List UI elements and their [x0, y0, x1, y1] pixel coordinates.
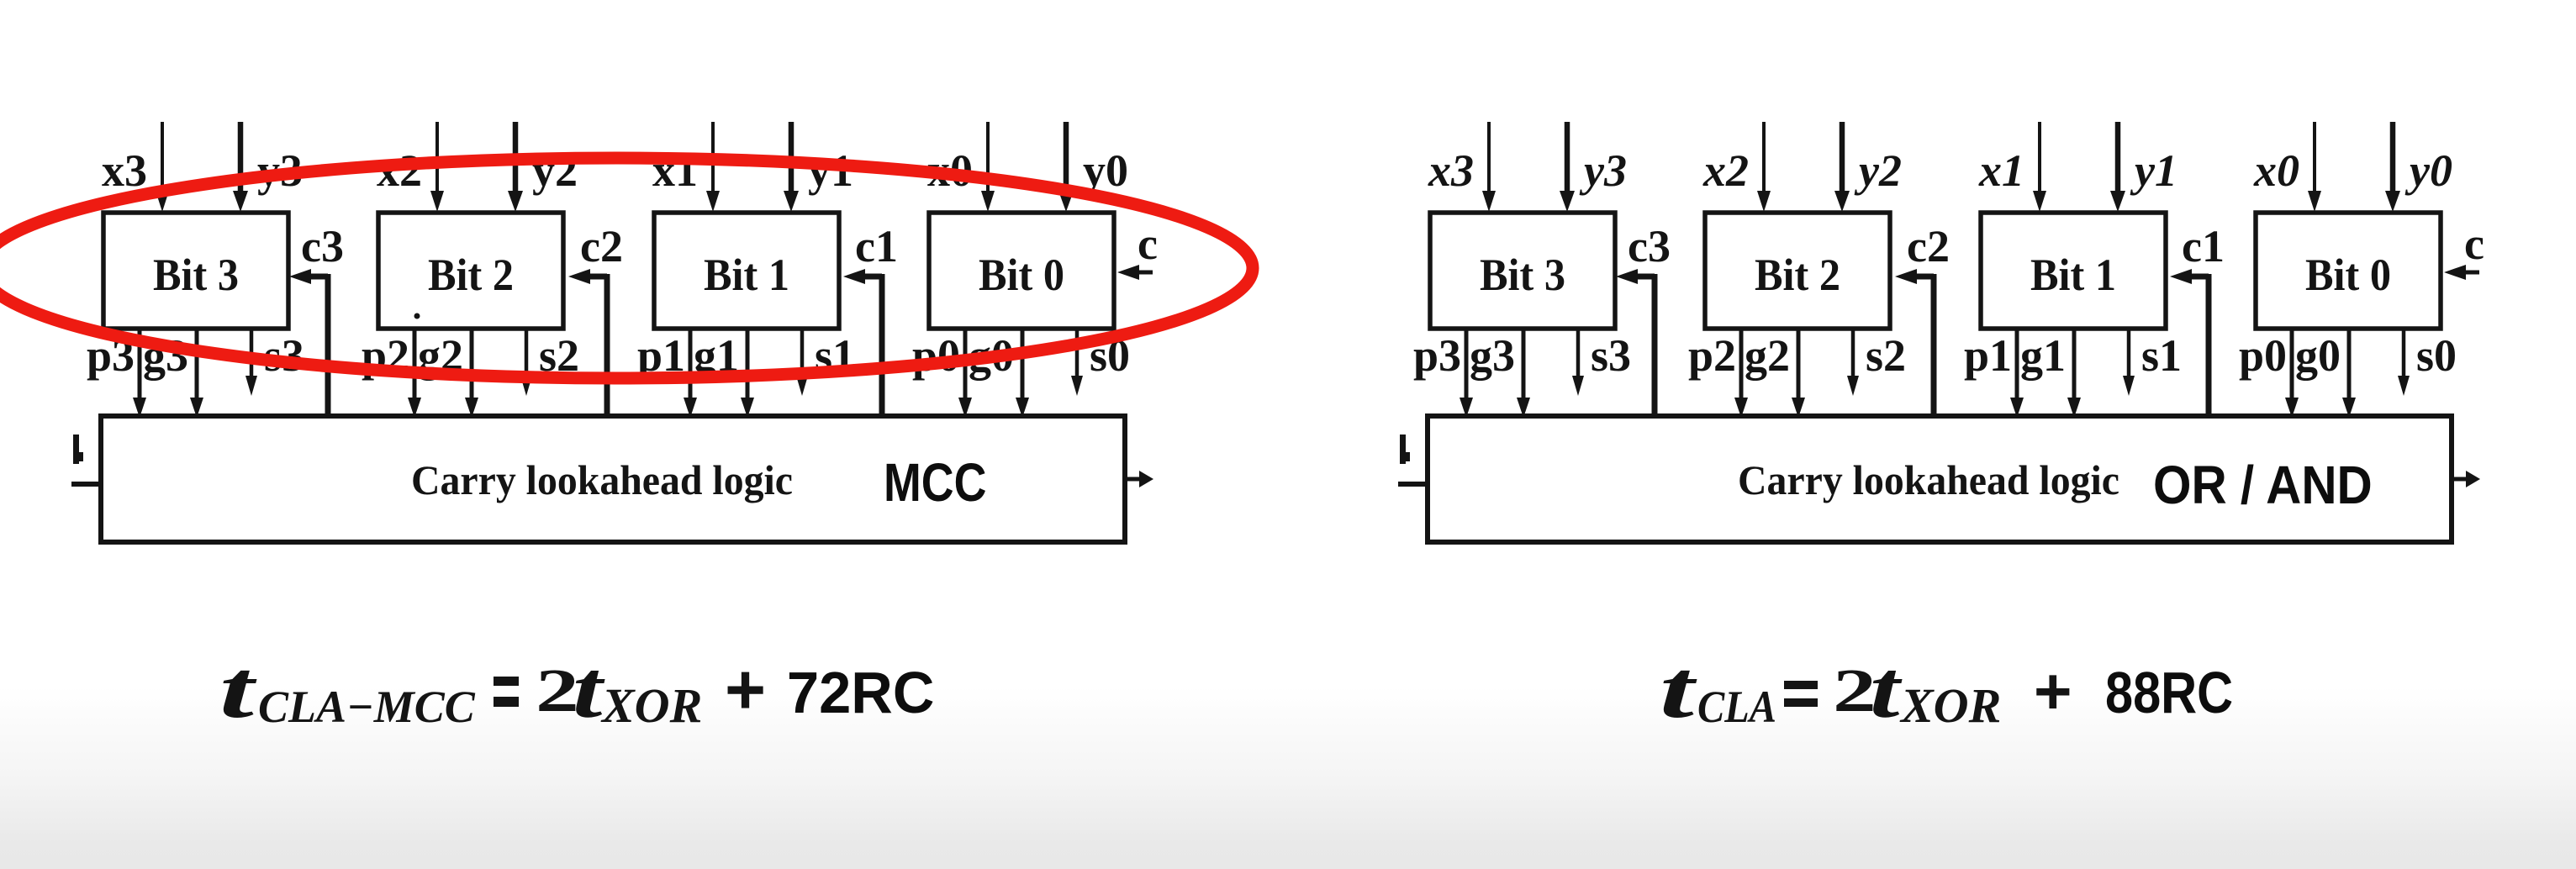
- svg-text:y0: y0: [2404, 145, 2452, 196]
- svg-text:x1: x1: [1978, 145, 2024, 196]
- svg-text:x2: x2: [1702, 145, 1749, 196]
- svg-text:OR / AND: OR / AND: [2153, 456, 2373, 515]
- svg-text:y1: y1: [2130, 145, 2177, 196]
- svg-text:88RC: 88RC: [2105, 659, 2233, 725]
- svg-text:t: t: [1870, 644, 1903, 735]
- svg-text:t: t: [573, 644, 605, 735]
- svg-text:+: +: [725, 650, 766, 729]
- svg-text:y2: y2: [1854, 145, 1902, 196]
- svg-text:y3: y3: [1579, 145, 1627, 196]
- svg-text:CLA−MCC: CLA−MCC: [258, 682, 476, 732]
- svg-text:72RC: 72RC: [787, 659, 934, 725]
- svg-text:x3: x3: [1428, 145, 1474, 196]
- svg-text:+: +: [2034, 654, 2072, 728]
- svg-text:t: t: [1660, 645, 1697, 735]
- svg-text:t: t: [219, 645, 257, 735]
- svg-text:x3: x3: [102, 145, 147, 196]
- svg-text:CLA: CLA: [1697, 682, 1776, 732]
- svg-text:x0: x0: [2253, 145, 2299, 196]
- svg-text:XOR: XOR: [1899, 678, 2001, 733]
- svg-text:XOR: XOR: [600, 678, 702, 733]
- svg-text:MCC: MCC: [884, 452, 986, 513]
